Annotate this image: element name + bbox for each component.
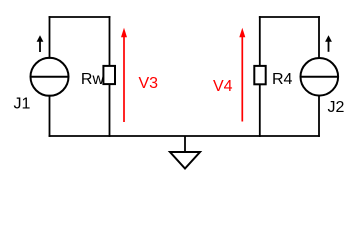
wire: bottom horizontal bus <box>49 135 320 137</box>
wire: right loop top horizontal <box>259 16 320 18</box>
svg-text:V3: V3 <box>139 75 159 92</box>
current source J2 <box>301 35 339 95</box>
svg-text:R4: R4 <box>272 71 293 88</box>
wire: left loop top horizontal <box>49 16 111 18</box>
resistor R4 <box>254 66 265 84</box>
current source J1 <box>31 35 69 96</box>
svg-text:V4: V4 <box>213 78 233 95</box>
wire: right loop left vertical lower <box>259 84 261 137</box>
voltage arrow V3 <box>121 28 127 122</box>
wire: right loop right vertical upper <box>318 16 320 59</box>
ground <box>170 136 200 169</box>
wire: left loop right vertical upper <box>109 16 111 66</box>
resistor Rw <box>103 66 115 84</box>
wire: right loop right vertical lower <box>318 95 320 137</box>
wire: left loop left vertical lower <box>49 95 51 137</box>
svg-text:J1: J1 <box>14 96 31 113</box>
svg-text:Rw: Rw <box>81 71 105 88</box>
wire: left loop right vertical lower <box>109 84 111 137</box>
voltage arrow V4 <box>239 28 245 122</box>
svg-text:J2: J2 <box>328 99 345 116</box>
wire: left loop left vertical upper <box>49 16 51 59</box>
wire: right loop left vertical upper <box>259 16 261 66</box>
